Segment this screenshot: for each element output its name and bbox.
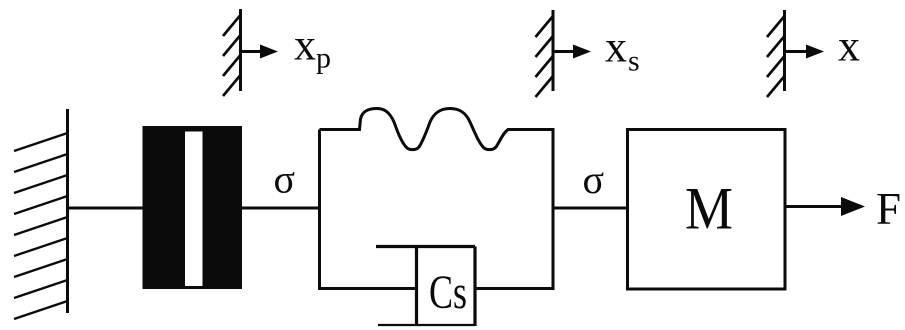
- spring loop frame with spring on top: [320, 109, 554, 289]
- svg-text:Cs: Cs: [429, 266, 467, 319]
- arrow x: [785, 45, 825, 59]
- svg-text:σ: σ: [583, 157, 605, 202]
- label x_p: [294, 21, 331, 75]
- svg-text:σ: σ: [274, 157, 296, 202]
- reference mark x_p: [223, 9, 241, 96]
- svg-text:F: F: [876, 184, 901, 234]
- reference mark x: [767, 10, 785, 97]
- svg-text:x: x: [294, 21, 316, 70]
- mass M box: [628, 130, 786, 290]
- fixed wall: [14, 109, 68, 319]
- svg-text:M: M: [685, 176, 733, 242]
- arrow F: [785, 197, 865, 216]
- svg-text:s: s: [628, 45, 640, 78]
- wire wall to piezo: [68, 207, 143, 210]
- damper Cs: [376, 247, 475, 327]
- wire piezo to spring loop: [242, 207, 320, 210]
- svg-text:p: p: [316, 42, 331, 75]
- arrow x_s: [553, 45, 591, 59]
- reference mark x_s: [536, 10, 554, 97]
- arrow x_p: [241, 45, 279, 59]
- piezoelectric actuator (black stack): [143, 126, 243, 289]
- wire loop to mass M: [553, 207, 628, 210]
- svg-text:x: x: [605, 23, 627, 72]
- svg-text:x: x: [838, 22, 860, 71]
- label x_s: [605, 23, 640, 78]
